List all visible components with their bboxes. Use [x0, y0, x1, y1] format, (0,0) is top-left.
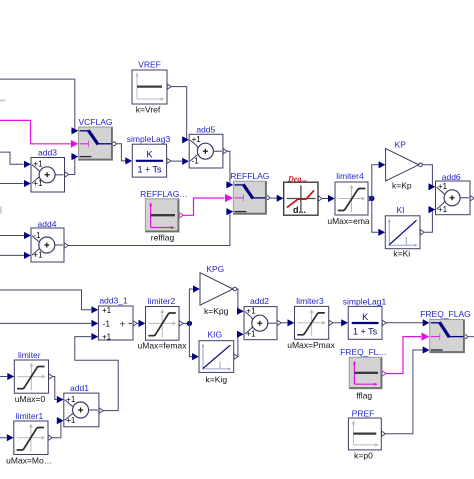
svg-text:K: K — [362, 312, 368, 322]
svg-text:+1: +1 — [102, 306, 112, 315]
deadband block — [284, 182, 318, 215]
svg-text:k=Kpg: k=Kpg — [204, 306, 229, 316]
wire add4 output to REFFLAG u3 — [64, 243, 68, 248]
wire junction to KI input — [372, 199, 379, 233]
junction node after limiter2 — [187, 321, 192, 326]
svg-text:uMax=ema: uMax=ema — [327, 216, 370, 226]
wire magenta fflag to FREQ_FLAG u2 — [382, 371, 386, 376]
wire limiter4 output to junction — [368, 196, 372, 201]
svg-text:1 + Ts: 1 + Ts — [353, 327, 378, 337]
svg-text:k=p0: k=p0 — [354, 451, 373, 461]
svg-text:fflag: fflag — [356, 391, 372, 401]
svg-text:add3: add3 — [38, 147, 57, 157]
boolean source refflag — [145, 199, 179, 232]
svg-text:+1: +1 — [33, 179, 43, 188]
svg-text:REFFLAG…: REFFLAG… — [140, 189, 188, 199]
limiter2 — [146, 307, 180, 341]
svg-text:+1: +1 — [66, 395, 76, 404]
svg-text:k=Kig: k=Kig — [206, 374, 228, 384]
svg-text:KI: KI — [396, 205, 404, 215]
svg-text:+1: +1 — [33, 160, 43, 169]
wire input to add4 u1 — [0, 235, 25, 237]
svg-text:K: K — [146, 150, 152, 160]
svg-text:-1: -1 — [192, 157, 200, 166]
wire simpleLag3 output to add5 u2 — [167, 158, 171, 163]
svg-text:+1: +1 — [192, 135, 202, 144]
svg-text:add4: add4 — [38, 219, 57, 229]
wire add2 output to limiter3 — [277, 320, 281, 325]
adder add1 — [64, 393, 99, 427]
svg-text:uMax=0: uMax=0 — [15, 394, 46, 404]
svg-text:add3_1: add3_1 — [99, 296, 128, 306]
svg-text:+: + — [120, 319, 126, 330]
limiter1 — [14, 421, 48, 455]
constant source VREF — [132, 70, 167, 104]
boolean source fflag — [349, 357, 382, 388]
partial icon mark at left edge (middle) — [0, 207, 2, 214]
wire input to add3 u1 — [0, 152, 24, 164]
integrator KIG — [199, 341, 234, 373]
svg-text:simpleLag1: simpleLag1 — [343, 297, 387, 307]
wire PREF output to FREQ_FLAG u3 — [382, 431, 386, 436]
wire VCFLAG output to simpleLag3 — [112, 142, 116, 146]
wire add5 output to REFFLAG u1 — [223, 149, 227, 154]
svg-text:-1: -1 — [103, 319, 111, 328]
svg-text:KIG: KIG — [207, 330, 222, 340]
partial icon mark at left edge (top) — [0, 100, 6, 102]
wire input to add4 u2 — [0, 254, 25, 256]
adder add2 — [244, 307, 277, 340]
svg-text:k=Ki: k=Ki — [393, 249, 410, 259]
wire input to add3_1 u2 — [0, 322, 91, 324]
adder add4 — [31, 228, 64, 262]
wire limiter3 output to simpleLag1 — [329, 320, 333, 325]
svg-text:+1: +1 — [66, 416, 76, 425]
first order lag simpleLag1 — [348, 306, 382, 339]
wire limiter output to add1 u1 — [49, 374, 53, 379]
svg-text:+1: +1 — [438, 182, 448, 191]
svg-text:uMax=femax: uMax=femax — [138, 341, 188, 351]
first order lag simpleLag3 — [132, 144, 166, 177]
svg-text:simpleLag3: simpleLag3 — [127, 134, 171, 144]
switch REFFLAG — [233, 181, 266, 214]
svg-text:d...: d... — [293, 205, 306, 215]
svg-text:+1: +1 — [438, 205, 448, 214]
svg-text:KP: KP — [395, 139, 407, 149]
limiter4 — [335, 182, 368, 215]
svg-text:FREQ_FL…: FREQ_FL… — [340, 347, 387, 357]
switch VCFLAG — [79, 127, 113, 160]
wire limiter1 output to add1 u2 — [48, 435, 52, 440]
wire input to add3_1 u1 — [0, 290, 91, 310]
adder add6 — [436, 181, 471, 215]
wire KPG output to add2 u1 — [233, 287, 237, 291]
svg-text:+1: +1 — [33, 251, 43, 260]
svg-text:uMax=Pmax: uMax=Pmax — [287, 340, 335, 350]
svg-text:PREF: PREF — [352, 409, 375, 419]
wire add3 output to VCFLAG u3 — [65, 172, 69, 177]
wire junction to KPG input — [189, 289, 193, 323]
constant source PREF — [348, 418, 381, 450]
svg-text:Dea...: Dea... — [287, 174, 307, 183]
switch FREQ_FLAG — [430, 320, 465, 353]
wire REFFLAG output to deadband — [266, 196, 270, 200]
svg-text:REFFLAG: REFFLAG — [230, 171, 269, 181]
svg-text:+1: +1 — [102, 333, 112, 342]
wire KI output to add6 u2 — [420, 230, 424, 235]
svg-text:add1: add1 — [70, 383, 89, 393]
wire add3_1 output to limiter2 — [133, 321, 137, 326]
svg-text:add6: add6 — [442, 172, 461, 182]
svg-text:add2: add2 — [250, 296, 269, 306]
adder add5 — [189, 134, 223, 168]
svg-text:FREQ_FLAG: FREQ_FLAG — [420, 309, 471, 319]
svg-text:limiter2: limiter2 — [148, 296, 176, 306]
limiter3 — [295, 306, 329, 339]
wire input to limiter — [0, 376, 7, 378]
wire magenta refflag to REFFLAG u2 — [179, 213, 183, 218]
junction node after limiter4 — [369, 196, 374, 201]
gain KPG — [200, 273, 233, 306]
wire simpleLag1 output to FREQ_FLAG u1 — [382, 320, 386, 325]
wire KP output to add6 u1 — [419, 163, 423, 167]
svg-text:VREF: VREF — [138, 59, 161, 69]
limiter — [14, 360, 48, 393]
wire junction to KIG input — [189, 323, 192, 356]
integrator KI — [385, 216, 420, 249]
wire Vt input to VCFLAG u1 — [0, 79, 75, 131]
svg-text:KPG: KPG — [206, 264, 224, 274]
wire FREQ_FLAG output to right edge — [464, 335, 468, 339]
svg-text:VCFLAG: VCFLAG — [78, 117, 112, 127]
wire limiter2 output to junction — [179, 321, 183, 326]
gain KP — [386, 149, 419, 181]
svg-text:1 + Ts: 1 + Ts — [137, 165, 162, 175]
wire add6 output to right edge — [470, 196, 474, 201]
svg-text:add5: add5 — [196, 124, 215, 134]
svg-text:uMax=Mo…: uMax=Mo… — [6, 455, 52, 465]
wire input to add3 u2 — [0, 183, 24, 185]
svg-text:+1: +1 — [246, 330, 256, 339]
wire add1 output to add3_1 u3 — [99, 408, 103, 413]
wire KIG output to add2 u2 — [234, 354, 238, 359]
svg-text:limiter: limiter — [18, 350, 41, 360]
svg-text:k=Vref: k=Vref — [136, 105, 161, 115]
svg-text:-1: -1 — [33, 231, 41, 240]
svg-text:limiter1: limiter1 — [16, 411, 44, 421]
wire magenta vcflag signal to VCFLAG u2 — [0, 120, 71, 143]
wire deadband output to limiter4 — [318, 196, 322, 201]
svg-text:+1: +1 — [246, 307, 256, 316]
adder add3 — [31, 158, 65, 193]
wire VREF output to add5 u1 — [167, 84, 171, 89]
wire input to limiter1 — [0, 437, 7, 439]
svg-text:k=Kp: k=Kp — [392, 181, 412, 191]
svg-text:refflag: refflag — [151, 232, 175, 242]
wire junction to KP input — [372, 165, 379, 199]
adder add3_1 (3 inputs) — [98, 306, 133, 342]
svg-text:limiter4: limiter4 — [336, 171, 364, 181]
svg-text:limiter3: limiter3 — [296, 296, 324, 306]
